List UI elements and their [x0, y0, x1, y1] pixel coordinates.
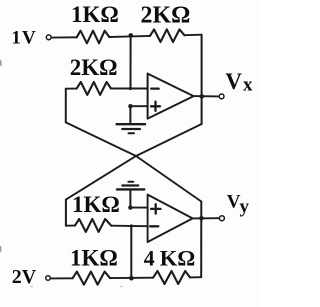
svg-text:2KΩ: 2KΩ — [141, 3, 191, 29]
svg-text:1KΩ: 1KΩ — [72, 192, 120, 217]
svg-text:V: V — [22, 27, 36, 48]
svg-text:y: y — [240, 197, 250, 218]
svg-text:V: V — [225, 69, 242, 94]
svg-text:2V: 2V — [12, 266, 37, 288]
svg-text:KΩ: KΩ — [160, 246, 196, 271]
svg-text:2KΩ: 2KΩ — [70, 55, 118, 80]
svg-text:4: 4 — [144, 246, 155, 271]
svg-text:x: x — [243, 75, 253, 96]
svg-text:1KΩ: 1KΩ — [70, 246, 118, 271]
svg-text:1: 1 — [11, 27, 21, 48]
svg-text:1KΩ: 1KΩ — [71, 2, 119, 27]
